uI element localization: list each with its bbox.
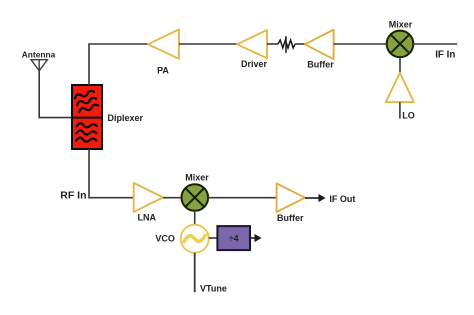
wire attenuator to Buffer [295,43,305,45]
svg-text:Buffer: Buffer [307,60,334,70]
amplifier LNA [134,183,163,212]
svg-text:VCO: VCO [155,234,175,244]
diplexer FL1 [72,85,102,149]
wire mixer U1 to LO amplifier [399,57,401,73]
svg-text:Antenna: Antenna [22,50,56,60]
wire PA to Driver [179,43,237,45]
mixer U1 (up-convert) [387,31,414,58]
wire Driver to attenuator [267,43,278,45]
amplifier LO buffer [386,73,414,102]
wire Buffer to mixer U1 [334,43,387,45]
wire mixer U2 to Buffer (IF) [208,197,277,199]
svg-text:Mixer: Mixer [185,172,209,182]
svg-text:IF Out: IF Out [329,194,355,204]
amplifier Buffer (TX) [305,30,334,60]
svg-text:Driver: Driver [241,59,268,69]
svg-text:RF In: RF In [60,190,86,202]
wire antenna to diplexer [39,71,72,118]
wire VCO to VTune port [194,253,196,293]
wire mixer U1 to IF In port [413,43,457,45]
frequency divider U3 [217,226,250,250]
wire Buffer to IF Out with arrowhead [305,194,326,202]
svg-text:LNA: LNA [138,213,157,223]
wire divider output with arrowhead [250,234,262,242]
svg-text:IF In: IF In [435,49,455,60]
mixer U2 (down-convert) [182,184,209,211]
svg-text:Mixer: Mixer [389,20,413,30]
amplifier Buffer (IF) [277,183,305,212]
svg-text:LO: LO [402,111,415,121]
wire LNA to mixer U2 [163,197,182,199]
wire LO amplifier to LO port [399,102,401,119]
svg-text:PA: PA [157,66,169,76]
oscillator VCO [181,225,209,253]
svg-text:Diplexer: Diplexer [108,113,144,123]
wire diplexer to LNA (RX path) [89,149,134,198]
svg-text:VTune: VTune [200,284,227,294]
wire diplexer to PA (TX path) [89,44,148,85]
wire mixer U2 to VCO [194,211,196,225]
svg-text:Buffer: Buffer [277,213,304,223]
amplifier PA [148,29,179,58]
attenuator R1 (resistor zigzag with center tap line) [278,36,295,53]
antenna ANT [31,60,47,71]
amplifier Driver [237,30,267,58]
svg-text:÷4: ÷4 [229,233,239,243]
wire VCO to divider [209,237,218,239]
